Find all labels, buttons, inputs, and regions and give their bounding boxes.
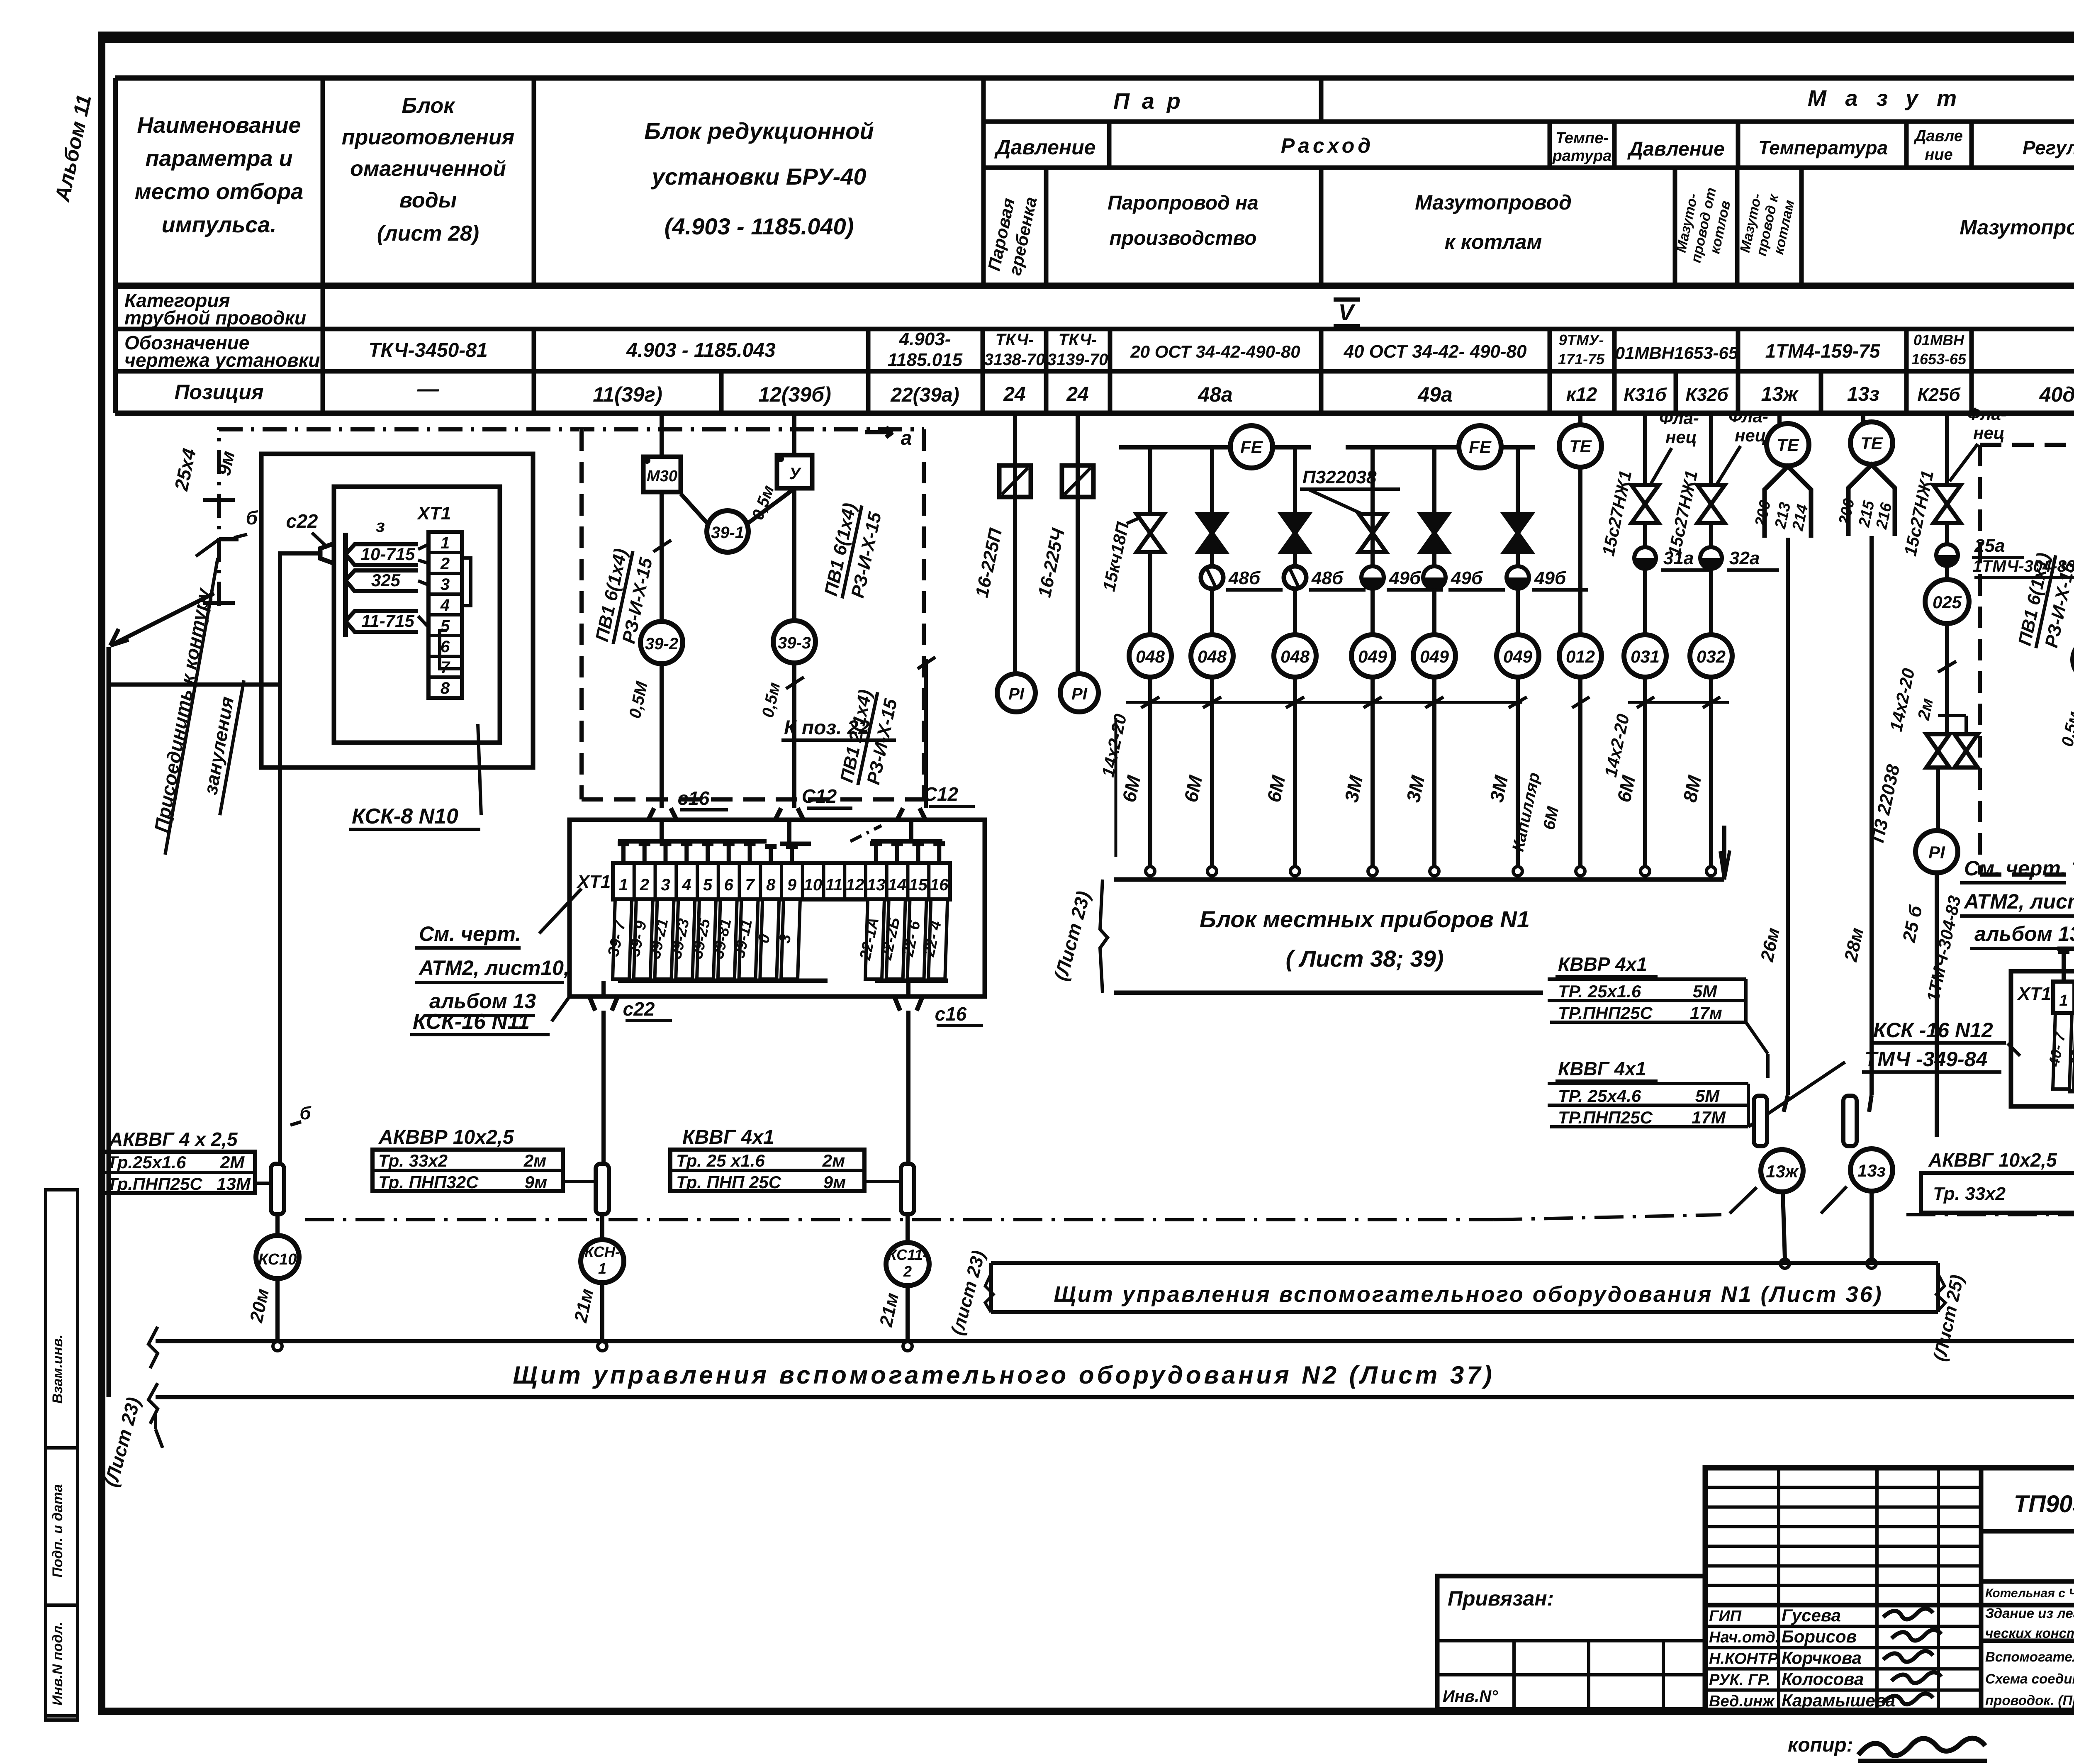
N12 bottom buses bbox=[2068, 1089, 2074, 1094]
svg-text:49б: 49б bbox=[1534, 568, 1567, 588]
svg-text:РI: РI bbox=[1928, 843, 1945, 862]
svg-text:Блок: Блок bbox=[402, 94, 455, 118]
instrument circle 049 on line 3309 bbox=[1351, 635, 1394, 677]
svg-text:Фла-: Фла- bbox=[1659, 408, 1699, 428]
FE line 2 horizontal bbox=[1346, 445, 1459, 450]
svg-text:13з: 13з bbox=[1857, 1161, 1886, 1180]
node on block top line 2773 bbox=[1146, 867, 1155, 876]
N11 tag labels row bbox=[613, 899, 632, 979]
svg-text:ТЕ: ТЕ bbox=[1860, 434, 1884, 453]
svg-text:импульса.: импульса. bbox=[162, 212, 277, 237]
svg-text:049: 049 bbox=[1420, 647, 1449, 666]
tick on line 3659 bbox=[1509, 697, 1527, 708]
KC10 node on rail bbox=[273, 1342, 282, 1351]
svg-text:КС10: КС10 bbox=[258, 1251, 297, 1268]
svg-text:омагниченной: омагниченной bbox=[350, 157, 506, 181]
svg-text:воды: воды bbox=[399, 188, 457, 212]
svg-text:Давление: Давление bbox=[1627, 138, 1724, 160]
025 line to twin valves bbox=[1945, 624, 1949, 735]
valve 15s27NZh1 on 31a bbox=[1631, 485, 1659, 504]
svg-text:48б: 48б bbox=[1228, 568, 1261, 588]
svg-text:АТМ2, лист10: АТМ2, лист10 bbox=[1963, 890, 2074, 913]
svg-text:048: 048 bbox=[1136, 647, 1165, 666]
svg-text:(4.903 - 1185.040): (4.903 - 1185.040) bbox=[665, 213, 854, 239]
document name cell bbox=[1981, 1639, 2074, 1643]
svg-text:ТП903-1- 2 44. 87: ТП903-1- 2 44. 87 bbox=[2014, 1491, 2074, 1518]
N11 bus cells 13-16 bbox=[871, 839, 942, 844]
svg-text:5М: 5М bbox=[1693, 982, 1717, 1001]
svg-text:01МВН1653-65: 01МВН1653-65 bbox=[1615, 343, 1738, 363]
KSK-16 N11 box bbox=[570, 820, 985, 997]
small instrument 48б on line 3122 bbox=[1284, 566, 1306, 589]
TE bubble capillary line bbox=[1578, 413, 1582, 426]
svg-text:049: 049 bbox=[1358, 647, 1388, 666]
circle 13zh bbox=[1761, 1150, 1803, 1192]
svg-text:8: 8 bbox=[441, 679, 450, 697]
svg-text:1: 1 bbox=[2059, 992, 2068, 1009]
circle 39-2 bbox=[640, 621, 683, 664]
c16 connector above N11 bbox=[648, 808, 677, 820]
wire M30 down to c16 bbox=[660, 492, 664, 621]
svg-text:1: 1 bbox=[598, 1260, 606, 1277]
svg-text:РI: РI bbox=[1071, 685, 1088, 703]
svg-text:КСН-: КСН- bbox=[584, 1243, 620, 1260]
svg-text:5М: 5М bbox=[1695, 1086, 1720, 1106]
twin valves on 025 bbox=[1926, 734, 1950, 751]
label PV1 fraction left of 40-2 bbox=[2014, 551, 2074, 653]
wire c22 to KCN-1 bbox=[601, 1011, 606, 1164]
node on block top line 3458 bbox=[1430, 867, 1439, 876]
025 line to RT gauge bbox=[1936, 767, 1940, 830]
node 13z on shield N1 bbox=[1867, 1259, 1876, 1268]
svg-text:Борисов: Борисов bbox=[1782, 1627, 1857, 1646]
instrument circle 048 on line 2922 bbox=[1191, 635, 1233, 677]
svg-text:39-2: 39-2 bbox=[645, 635, 678, 653]
label PV1 fraction right of 39-1 bbox=[820, 501, 886, 603]
N12 tag labels bbox=[2053, 1013, 2072, 1089]
svg-text:Давление: Давление bbox=[994, 136, 1096, 159]
FE bubble 1 bbox=[1230, 426, 1273, 468]
svg-text:12: 12 bbox=[846, 876, 864, 894]
svg-text:5: 5 bbox=[441, 617, 450, 635]
N12 bus cells 1-9 bbox=[2057, 947, 2074, 951]
wire from table to M30 bbox=[660, 413, 664, 457]
svg-text:048: 048 bbox=[1280, 647, 1310, 666]
svg-text:к12: к12 bbox=[1566, 383, 1597, 405]
tick on line 2773 bbox=[1141, 697, 1159, 708]
svg-text:К32б: К32б bbox=[1685, 385, 1729, 405]
svg-text:Вспомогательное оборудование.: Вспомогательное оборудование. bbox=[1985, 1649, 2074, 1664]
line 16-225Ch bbox=[1076, 413, 1080, 674]
title block designation cell bbox=[1981, 1529, 2074, 1534]
svg-text:48а: 48а bbox=[1198, 383, 1232, 406]
svg-text:ТКЧ-: ТКЧ- bbox=[996, 331, 1034, 349]
svg-text:14: 14 bbox=[888, 876, 907, 894]
svg-text:39-3: 39-3 bbox=[778, 634, 811, 652]
tick on line 2922 bbox=[1203, 697, 1221, 708]
svg-text:Схема соединений внешних: Схема соединений внешних bbox=[1985, 1671, 2074, 1686]
N11 bus cells 1-7 bbox=[618, 839, 767, 844]
N12 stubs bbox=[2062, 949, 2066, 982]
svg-text:9м: 9м bbox=[525, 1172, 547, 1192]
svg-text:11-715: 11-715 bbox=[361, 611, 414, 631]
K poz.22 wire bbox=[924, 659, 928, 808]
svg-text:Тр.25х1.6: Тр.25х1.6 bbox=[107, 1152, 186, 1172]
svg-text:ТМЧ -349-84: ТМЧ -349-84 bbox=[1865, 1048, 1987, 1071]
svg-text:П322038: П322038 bbox=[1302, 467, 1377, 487]
flow line at x=2922 bbox=[1210, 447, 1214, 867]
svg-text:К25б: К25б bbox=[1917, 385, 1961, 405]
flow line at x=3659 bbox=[1516, 447, 1520, 867]
local instruments block N1 bottom line bbox=[1114, 991, 1543, 995]
label PV1 fraction left of 39-2 bbox=[592, 546, 657, 649]
shield N1 box bbox=[991, 1261, 1938, 1265]
svg-text:К31б: К31б bbox=[1624, 385, 1667, 405]
KSK-16 N12 box bbox=[2011, 971, 2074, 1106]
svg-text:12(39б): 12(39б) bbox=[758, 383, 831, 406]
rail 2 (shield N2 bottom) bbox=[156, 1395, 2074, 1399]
svg-text:48б: 48б bbox=[1311, 568, 1344, 588]
KC10 cable marker bbox=[278, 1141, 282, 1167]
tag 11-715 bbox=[346, 611, 418, 632]
instrument circle 048 on line 2773 bbox=[1129, 635, 1171, 677]
svg-text:К поз. 22: К поз. 22 bbox=[784, 717, 869, 739]
svg-text:нец: нец bbox=[1973, 423, 2005, 443]
svg-text:8: 8 bbox=[766, 876, 776, 894]
svg-text:2М: 2М bbox=[220, 1152, 245, 1172]
svg-text:FE: FE bbox=[1240, 437, 1263, 457]
svg-text:Регулирование давления: Регулирование давления bbox=[2023, 137, 2074, 158]
cable marker 13zh bbox=[1784, 1095, 1788, 1112]
svg-text:б: б bbox=[299, 1103, 312, 1123]
title block left grid bbox=[1705, 1486, 1981, 1489]
svg-text:40 ОСТ 34-42- 490-80: 40 ОСТ 34-42- 490-80 bbox=[1343, 341, 1527, 362]
svg-text:10-715: 10-715 bbox=[361, 544, 415, 564]
wire c16 to KC11-2 bbox=[906, 1011, 910, 1164]
svg-text:—: — bbox=[417, 377, 439, 401]
svg-text:Карамышева: Карамышева bbox=[1782, 1691, 1895, 1710]
svg-text:13М: 13М bbox=[217, 1174, 251, 1194]
svg-text:трубной проводки: трубной проводки bbox=[124, 307, 306, 329]
svg-text:11: 11 bbox=[825, 876, 843, 894]
circle 13z bbox=[1850, 1149, 1893, 1191]
rail 1 (to sheet 25) bbox=[156, 1339, 2074, 1343]
circle 025 bbox=[1945, 566, 1949, 580]
svg-text:4: 4 bbox=[440, 596, 450, 614]
svg-text:ТКЧ-3450-81: ТКЧ-3450-81 bbox=[368, 339, 487, 361]
svg-text:11(39г): 11(39г) bbox=[593, 383, 662, 406]
svg-text:С12: С12 bbox=[923, 783, 959, 805]
svg-text:9ТМУ-: 9ТМУ- bbox=[1559, 331, 1604, 348]
svg-text:КВВГ 4х1: КВВГ 4х1 bbox=[682, 1126, 774, 1148]
svg-text:Блок редукционной: Блок редукционной bbox=[644, 118, 874, 144]
svg-text:171-75: 171-75 bbox=[1558, 351, 1605, 368]
c16 connector below N11 bbox=[894, 997, 923, 1011]
KC10 circle bbox=[256, 1235, 299, 1279]
wire from ground c22 to KC10 bbox=[280, 553, 320, 1141]
flow line at x=2773 bbox=[1148, 447, 1152, 867]
shield N1 right bracket bbox=[1936, 1274, 1945, 1311]
valve on 32a bbox=[1697, 485, 1725, 504]
title block outline bbox=[1705, 1468, 2074, 1711]
svg-text:13: 13 bbox=[867, 876, 886, 894]
capillary line 012 bbox=[1578, 467, 1582, 867]
svg-text:Тр. 25 х1.6: Тр. 25 х1.6 bbox=[676, 1151, 765, 1170]
svg-text:с22: с22 bbox=[623, 998, 655, 1020]
node on block top line 2922 bbox=[1207, 867, 1217, 876]
svg-text:Мазутопровод от котлов: Мазутопровод от котлов bbox=[1960, 216, 2074, 239]
svg-text:КСК-8 N10: КСК-8 N10 bbox=[352, 804, 458, 828]
valve on 025 line bbox=[1933, 485, 1961, 504]
svg-text:Наименование: Наименование bbox=[137, 113, 301, 138]
impulse bracket 14x2-20 left group bbox=[1126, 701, 1522, 704]
svg-text:копир:: копир: bbox=[1788, 1734, 1853, 1756]
svg-text:3138-70: 3138-70 bbox=[984, 351, 1045, 369]
svg-text:40д: 40д bbox=[2039, 383, 2074, 406]
svg-text:Тр. 33х2: Тр. 33х2 bbox=[378, 1151, 448, 1170]
left margin strip bbox=[46, 1190, 78, 1720]
svg-text:24: 24 bbox=[1003, 383, 1025, 405]
svg-text:ТЕ: ТЕ bbox=[1777, 435, 1800, 455]
svg-text:АКВВР 10х2,5: АКВВР 10х2,5 bbox=[378, 1126, 514, 1148]
svg-text:Расход: Расход bbox=[1281, 134, 1374, 157]
tag 10-715 bbox=[346, 544, 418, 565]
svg-text:13з: 13з bbox=[1847, 383, 1879, 405]
flow line at x=3458 bbox=[1432, 447, 1436, 867]
label PV1 2 fraction below 39-3 bbox=[836, 687, 902, 790]
svg-text:1: 1 bbox=[441, 534, 450, 552]
KCN-1 node on rail bbox=[598, 1342, 607, 1351]
svg-text:17м: 17м bbox=[1690, 1003, 1722, 1023]
svg-text:Фла-: Фла- bbox=[1728, 407, 1768, 426]
svg-text:01МВН: 01МВН bbox=[1913, 331, 1964, 348]
svg-text:2: 2 bbox=[440, 555, 450, 573]
svg-text:Вед.инж: Вед.инж bbox=[1709, 1693, 1775, 1710]
svg-text:6: 6 bbox=[724, 876, 734, 894]
TE well line 13z bbox=[1861, 413, 1865, 422]
small instrument 48б on line 2922 bbox=[1201, 566, 1223, 589]
valve on line 3309 bbox=[1359, 514, 1386, 533]
FE line 1 horizontal bbox=[1119, 445, 1230, 450]
N11 bottom bus left bbox=[618, 979, 828, 983]
svg-text:Котельная с Ч котлами ДЕ-10-14: Котельная с Ч котлами ДЕ-10-14т, bbox=[1985, 1586, 2074, 1600]
svg-text:АТМ2, лист10,: АТМ2, лист10, bbox=[418, 956, 570, 979]
small instrument 49б on line 3659 bbox=[1507, 566, 1529, 589]
svg-text:Мазут: Мазут bbox=[1808, 86, 1975, 111]
dash-dot branch into N11 bbox=[850, 826, 881, 841]
circle 40-2 bbox=[2073, 638, 2074, 681]
svg-text:Блок местных приборов: Блок местных приборов N1 bbox=[1200, 906, 1530, 932]
svg-text:V: V bbox=[1338, 299, 1356, 325]
svg-text:ТЕ: ТЕ bbox=[1569, 436, 1592, 456]
ground box KSK-8 N10 outer bbox=[261, 454, 533, 767]
svg-text:24: 24 bbox=[1066, 383, 1088, 405]
svg-text:к котлам: к котлам bbox=[1445, 230, 1542, 253]
svg-text:10: 10 bbox=[804, 876, 823, 894]
wire Y down to c12 bbox=[792, 488, 796, 621]
tag 325 bbox=[346, 570, 418, 591]
tick on line 3309 bbox=[1363, 697, 1382, 708]
svg-text:048: 048 bbox=[1198, 647, 1227, 666]
dashed instrument box 40 bbox=[1978, 445, 1982, 875]
svg-text:4.903 - 1185.043: 4.903 - 1185.043 bbox=[626, 339, 776, 361]
svg-text:ТКЧ-: ТКЧ- bbox=[1059, 331, 1097, 349]
node 13zh on shield N1 bbox=[1780, 1259, 1789, 1268]
PI gauge 1 bbox=[997, 674, 1035, 712]
svg-text:13ж: 13ж bbox=[1761, 383, 1799, 405]
svg-text:ТР.ПНП25С: ТР.ПНП25С bbox=[1558, 1108, 1653, 1127]
instrument circle 012 bbox=[1559, 635, 1602, 677]
M30 box bbox=[643, 457, 681, 492]
c22 connector below N11 bbox=[589, 997, 618, 1011]
valve on line 3659 bbox=[1504, 514, 1531, 533]
svg-text:Тр.ПНП25С: Тр.ПНП25С bbox=[107, 1174, 202, 1194]
flow line at x=3309 bbox=[1370, 447, 1375, 867]
line 32a bbox=[1709, 413, 1713, 867]
svg-text:20 ОСТ 34-42-490-80: 20 ОСТ 34-42-490-80 bbox=[1130, 342, 1300, 361]
svg-text:установки БРУ-40: установки БРУ-40 bbox=[651, 163, 867, 190]
flow line at x=3122 bbox=[1293, 447, 1297, 867]
svg-text:с16: с16 bbox=[935, 1003, 967, 1025]
svg-text:КВВР 4х1: КВВР 4х1 bbox=[1558, 953, 1647, 975]
svg-text:ческих конструкций: ческих конструкций bbox=[1985, 1625, 2074, 1641]
line 31a bbox=[1643, 413, 1647, 867]
PI gauge 2 bbox=[1060, 674, 1098, 712]
svg-text:Нач.отд.: Нач.отд. bbox=[1709, 1629, 1779, 1646]
svg-text:с16: с16 bbox=[678, 787, 710, 809]
title block rows right bbox=[1981, 1579, 2074, 1584]
svg-text:Щит управления вспомогател: Щит управления вспомогательного оборудов… bbox=[1054, 1282, 1883, 1307]
svg-text:б: б bbox=[246, 507, 258, 529]
FE bubble 2 bbox=[1459, 426, 1501, 468]
svg-text:приготовления: приготовления bbox=[342, 125, 515, 149]
svg-text:Давле: Давле bbox=[1913, 127, 1963, 145]
svg-text:ТР. 25х1.6: ТР. 25х1.6 bbox=[1558, 982, 1641, 1001]
svg-text:М30: М30 bbox=[647, 468, 677, 485]
ground box inner bbox=[334, 487, 500, 743]
svg-text:АКВВГ 10х2,5: АКВВГ 10х2,5 bbox=[1928, 1149, 2057, 1171]
svg-text:Пар: Пар bbox=[1113, 89, 1193, 114]
svg-text:ние: ние bbox=[1925, 146, 1952, 163]
instrument circle 031 bbox=[1624, 635, 1666, 677]
dashed instrument box 39 (BRU-40) bbox=[579, 429, 584, 799]
circle 39-3 bbox=[773, 621, 815, 663]
valve on line 2922 bbox=[1198, 514, 1226, 533]
svg-text:чертежа установки: чертежа установки bbox=[124, 349, 320, 371]
node on block top line 3122 bbox=[1290, 867, 1300, 876]
svg-text:См. черт.: См. черт. bbox=[419, 922, 521, 945]
svg-text:9м: 9м bbox=[823, 1172, 846, 1192]
svg-text:С12: С12 bbox=[802, 785, 837, 807]
circle 39-1 bbox=[707, 511, 748, 552]
svg-text:КС11-: КС11- bbox=[887, 1246, 927, 1263]
svg-text:2м: 2м bbox=[523, 1151, 546, 1170]
svg-text:АКВВГ 4 х 2,5: АКВВГ 4 х 2,5 bbox=[109, 1128, 238, 1150]
parameter header table grid bbox=[115, 76, 2074, 81]
svg-text:49а: 49а bbox=[1417, 383, 1452, 406]
svg-text:альбом 13: альбом 13 bbox=[429, 989, 536, 1013]
svg-text:1653-65: 1653-65 bbox=[1911, 351, 1967, 368]
jumper cells 3-4 bbox=[462, 558, 471, 606]
pribyazan box bbox=[1437, 1576, 1705, 1709]
svg-text:а: а bbox=[901, 427, 912, 449]
svg-text:5: 5 bbox=[703, 876, 713, 894]
svg-text:Фла-: Фла- bbox=[1967, 404, 2007, 424]
svg-text:Привязан:: Привязан: bbox=[1448, 1587, 1554, 1610]
svg-text:Взам.инв.: Взам.инв. bbox=[50, 1335, 66, 1404]
instrument circle 032 bbox=[1690, 635, 1732, 677]
svg-text:2м: 2м bbox=[822, 1151, 845, 1170]
svg-text:6: 6 bbox=[441, 638, 450, 656]
svg-text:(лист 28): (лист 28) bbox=[377, 222, 479, 246]
svg-text:1ТМ4-159-75: 1ТМ4-159-75 bbox=[1765, 340, 1881, 362]
svg-text:Темпе-: Темпе- bbox=[1555, 129, 1609, 147]
svg-text:3: 3 bbox=[441, 575, 450, 594]
cable marker 13z bbox=[1869, 1095, 1872, 1112]
svg-text:39-1: 39-1 bbox=[711, 524, 744, 542]
svg-text:Тр. ПНП32С: Тр. ПНП32С bbox=[378, 1172, 479, 1192]
svg-text:FE: FE bbox=[1469, 437, 1492, 457]
instrument circle 049 on line 3659 bbox=[1497, 635, 1539, 677]
KC11-2 node on rail bbox=[903, 1342, 912, 1351]
svg-text:Н.КОНТР.: Н.КОНТР. bbox=[1709, 1650, 1780, 1667]
svg-text:031: 031 bbox=[1631, 647, 1660, 666]
svg-text:ХТ1: ХТ1 bbox=[416, 503, 451, 524]
svg-text:2: 2 bbox=[640, 876, 649, 894]
svg-text:16: 16 bbox=[930, 876, 949, 894]
svg-text:3139-70: 3139-70 bbox=[1047, 351, 1108, 369]
valve on line 2773 bbox=[1137, 514, 1164, 533]
svg-text:17М: 17М bbox=[1692, 1108, 1726, 1127]
svg-text:Инв.N°: Инв.N° bbox=[1443, 1687, 1498, 1706]
svg-text:У: У bbox=[789, 465, 801, 483]
svg-text:325: 325 bbox=[371, 570, 401, 590]
svg-text:нец: нец bbox=[1735, 426, 1766, 445]
svg-text:РУК. ГР.: РУК. ГР. bbox=[1709, 1671, 1771, 1689]
svg-text:012: 012 bbox=[1566, 647, 1595, 666]
svg-text:Температура: Температура bbox=[1758, 137, 1888, 158]
node on block top line 3309 bbox=[1368, 867, 1377, 876]
c12 connector above N11 right bbox=[897, 808, 925, 820]
svg-text:КСК-16 N11: КСК-16 N11 bbox=[413, 1010, 530, 1034]
N11 bottom bus right bbox=[875, 979, 948, 983]
svg-text:ратура: ратура bbox=[1552, 147, 1612, 165]
svg-text:49б: 49б bbox=[1451, 568, 1483, 588]
tick on line 3122 bbox=[1286, 697, 1304, 708]
svg-text:ХТ1: ХТ1 bbox=[2017, 984, 2052, 1004]
RI gauge on 25b bbox=[1916, 831, 1958, 873]
KCN-1 circle bbox=[581, 1240, 624, 1283]
svg-text:7: 7 bbox=[745, 876, 755, 894]
Y box bbox=[777, 455, 812, 488]
svg-text:4.903-: 4.903- bbox=[899, 329, 951, 349]
svg-text:32а: 32а bbox=[1729, 548, 1760, 568]
svg-text:4: 4 bbox=[682, 876, 691, 894]
line 16-225P bbox=[1013, 413, 1017, 674]
svg-text:ТР.ПНП25С: ТР.ПНП25С bbox=[1558, 1003, 1653, 1023]
svg-text:Щит управления вспомогател: Щит управления вспомогательного оборудов… bbox=[513, 1361, 1495, 1389]
tick on Y wire bbox=[786, 677, 804, 689]
svg-text:9: 9 bbox=[787, 876, 797, 894]
svg-text:проводок. (Продолжение).: проводок. (Продолжение). bbox=[1985, 1693, 2074, 1708]
svg-text:Корчкова: Корчкова bbox=[1782, 1648, 1862, 1667]
svg-text:Тр. 33х2: Тр. 33х2 bbox=[1933, 1184, 2006, 1204]
svg-text:КВВГ 4х1: КВВГ 4х1 bbox=[1558, 1058, 1646, 1079]
svg-text:КСК -16 N12: КСК -16 N12 bbox=[1873, 1018, 1993, 1042]
svg-text:параметра и: параметра и bbox=[145, 146, 292, 171]
left vertical collector line bbox=[107, 647, 111, 1397]
half circle 31a bbox=[1634, 547, 1656, 569]
